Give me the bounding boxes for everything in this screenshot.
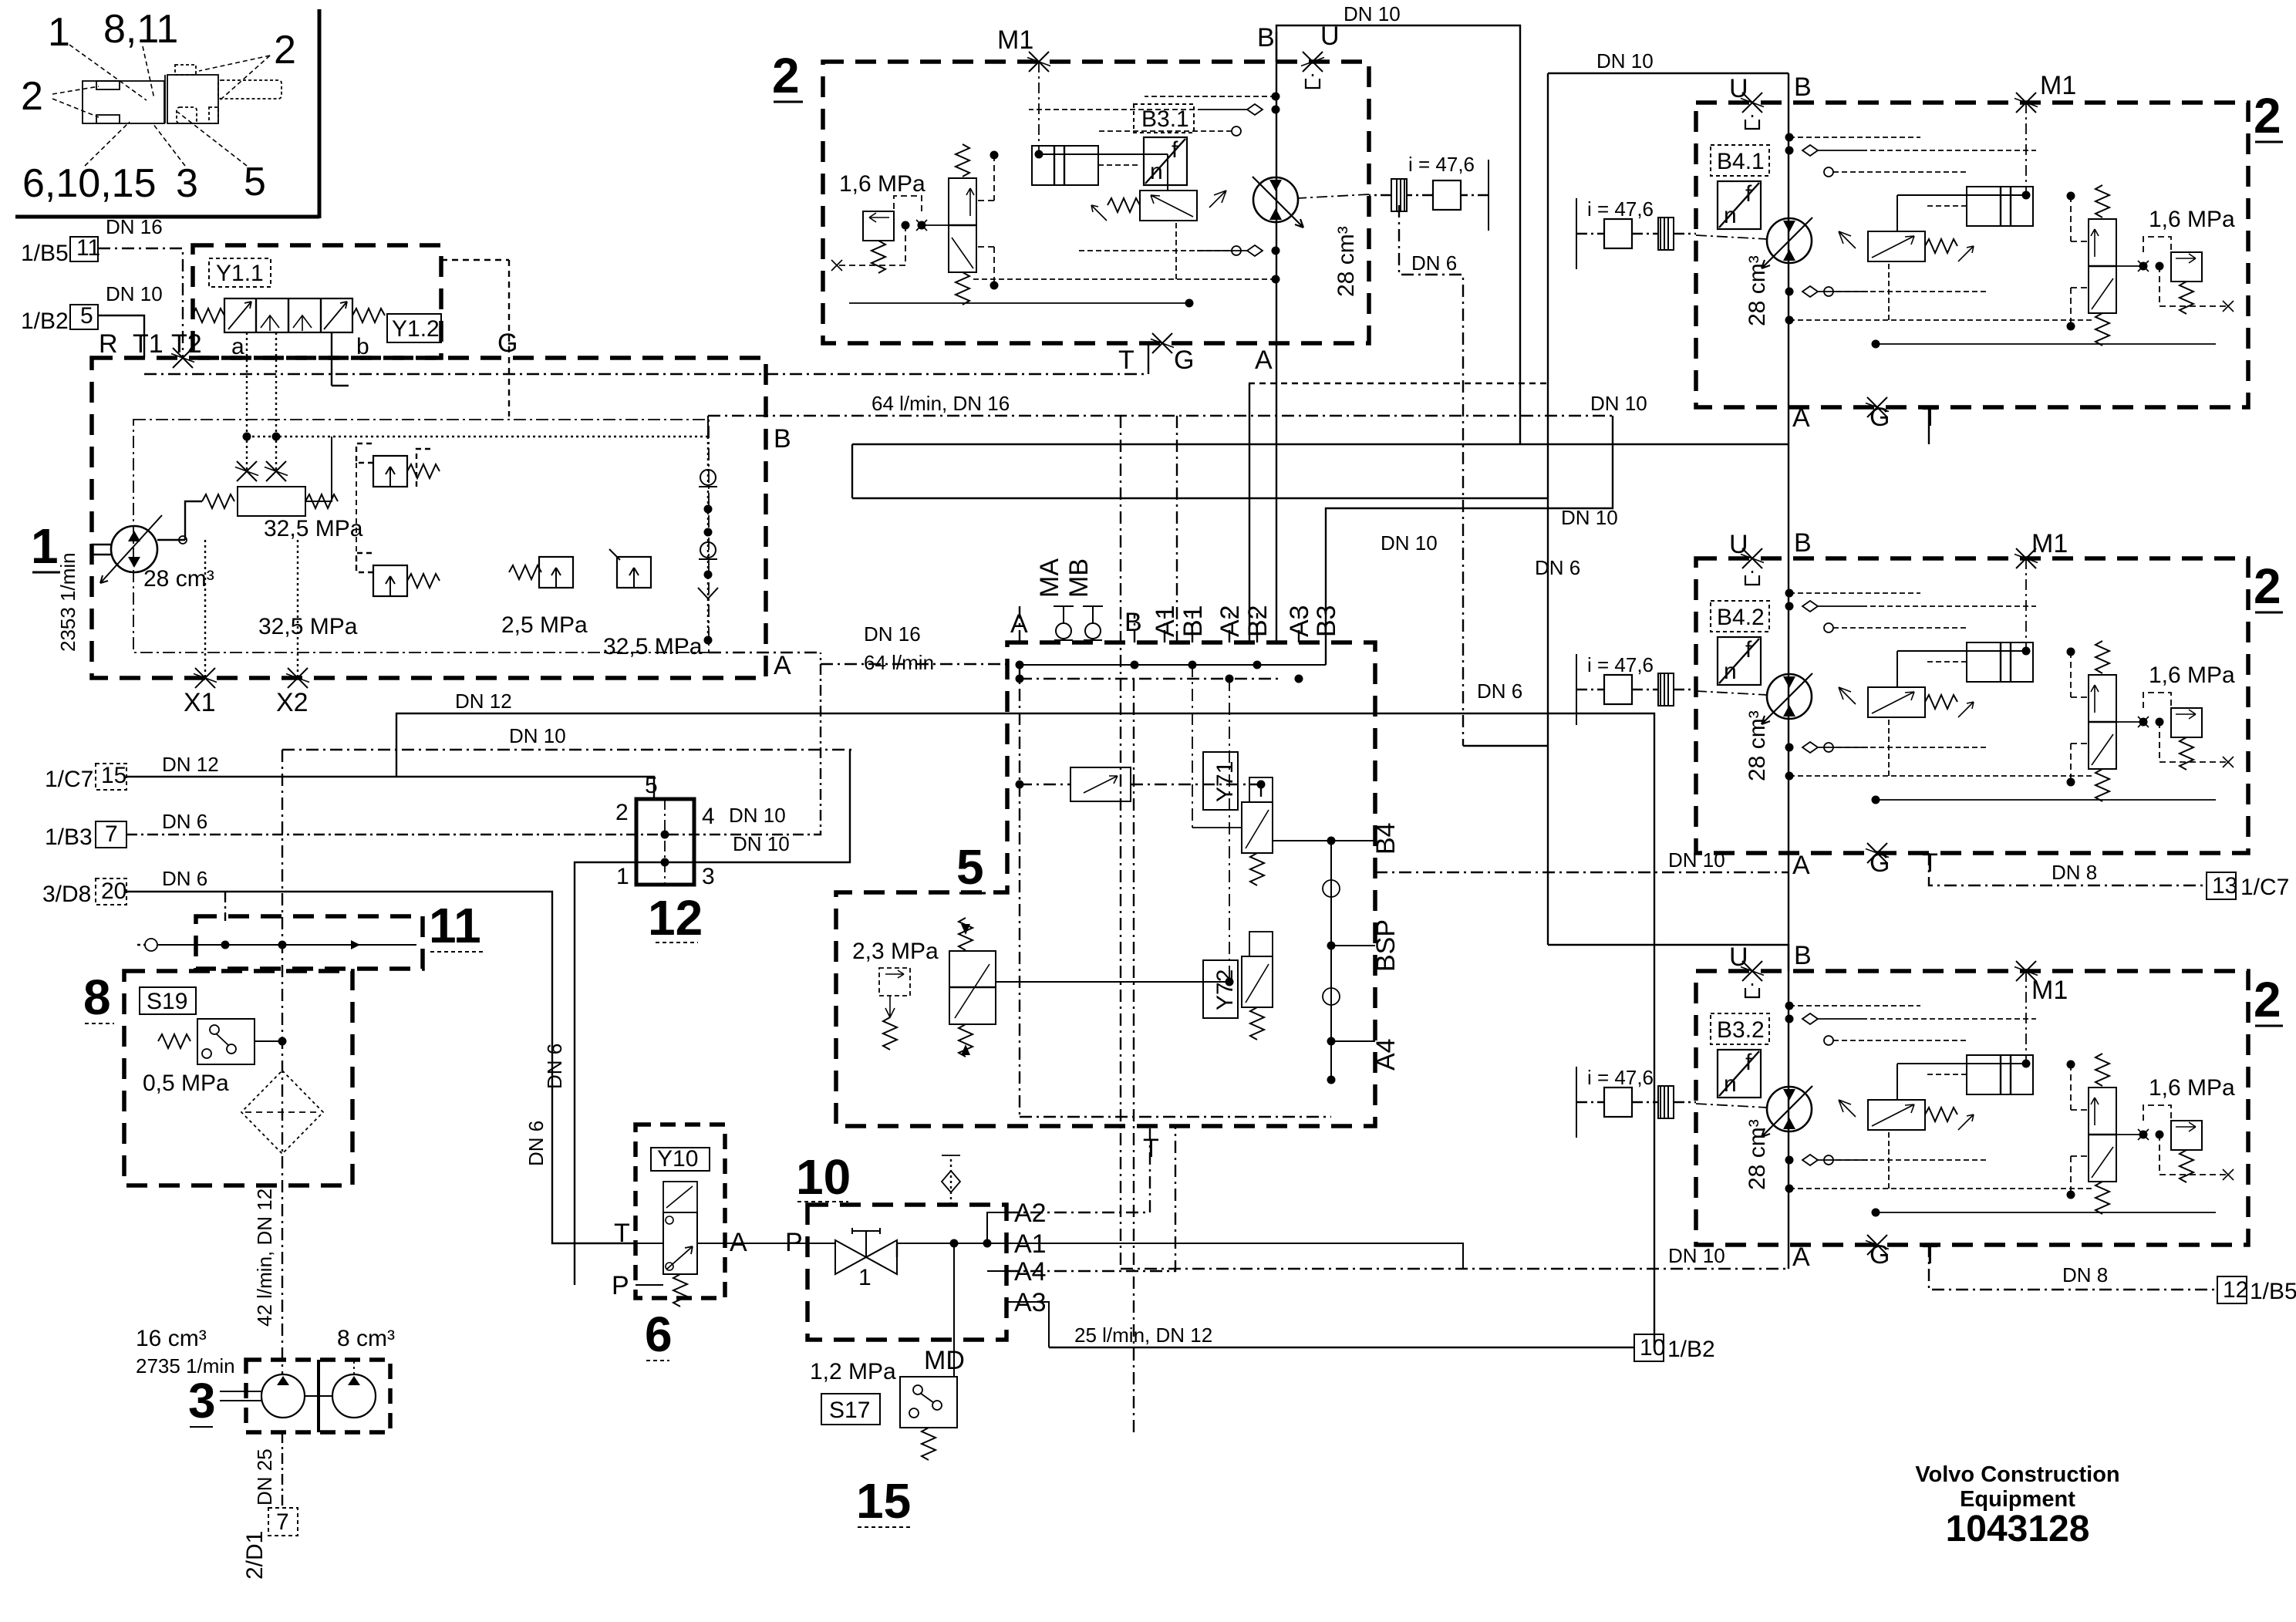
svg-text:M1: M1 bbox=[2031, 976, 2068, 1005]
A4 line inside bbox=[1020, 1116, 1331, 1118]
svg-text:X1: X1 bbox=[184, 688, 216, 717]
wire 1/C7 DN12 bbox=[126, 777, 654, 799]
svg-text:5: 5 bbox=[244, 160, 266, 204]
svg-text:28 cm³: 28 cm³ bbox=[1333, 226, 1359, 297]
svg-text:2353 1/min: 2353 1/min bbox=[56, 552, 79, 652]
svg-text:5: 5 bbox=[956, 839, 984, 895]
svg-text:64 l/min, DN 16: 64 l/min, DN 16 bbox=[872, 392, 1010, 415]
motor box B3.2 bbox=[1121, 941, 2283, 1272]
svg-text:DN 6: DN 6 bbox=[162, 810, 207, 833]
Y71 bbox=[1203, 752, 1238, 810]
svg-text:1/B5: 1/B5 bbox=[21, 241, 69, 266]
svg-text:DN 10: DN 10 bbox=[106, 282, 163, 305]
svg-text:28 cm³: 28 cm³ bbox=[143, 566, 214, 592]
svg-text:10: 10 bbox=[796, 1149, 851, 1205]
svg-text:1/B5: 1/B5 bbox=[2250, 1279, 2296, 1304]
svg-text:12: 12 bbox=[2223, 1277, 2248, 1303]
legend numbers bbox=[21, 7, 296, 206]
svg-text:DN 10: DN 10 bbox=[1590, 392, 1647, 415]
check valve above bbox=[950, 1155, 952, 1205]
svg-text:1,6 MPa: 1,6 MPa bbox=[2149, 663, 2235, 688]
right check valves BSP bbox=[1330, 841, 1332, 1080]
svg-text:1,6 MPa: 1,6 MPa bbox=[2149, 207, 2235, 232]
svg-text:DN 6: DN 6 bbox=[1411, 251, 1457, 275]
svg-text:B: B bbox=[1124, 608, 1142, 637]
svg-text:3: 3 bbox=[702, 864, 715, 889]
svg-text:T: T bbox=[1922, 848, 1938, 878]
internal link lines bbox=[247, 436, 708, 437]
svg-text:DN 10: DN 10 bbox=[1381, 531, 1438, 555]
wire B4.2 B feed bbox=[1249, 383, 1548, 384]
valve bbox=[636, 1182, 725, 1307]
svg-text:DN 10: DN 10 bbox=[1344, 2, 1401, 25]
svg-text:B: B bbox=[1257, 23, 1275, 52]
svg-text:15: 15 bbox=[101, 763, 126, 788]
svg-text:B: B bbox=[1794, 73, 1812, 102]
svg-text:U: U bbox=[1729, 530, 1748, 559]
svg-text:0,5 MPa: 0,5 MPa bbox=[143, 1071, 229, 1096]
wire 42 l/min DN 12 suction bbox=[282, 750, 283, 1374]
svg-text:B: B bbox=[774, 424, 791, 454]
svg-text:28 cm³: 28 cm³ bbox=[1745, 710, 1770, 781]
wire DN16 to T2 bbox=[98, 248, 183, 358]
svg-text:MA: MA bbox=[1035, 558, 1064, 598]
svg-text:MB: MB bbox=[1064, 558, 1094, 598]
svg-text:DN 10: DN 10 bbox=[1561, 506, 1618, 529]
svg-text:DN 10: DN 10 bbox=[729, 804, 786, 827]
svg-text:B4: B4 bbox=[1371, 822, 1401, 855]
svg-text:1: 1 bbox=[858, 1265, 872, 1290]
DN6 drain down bbox=[1399, 205, 1463, 746]
legend border bbox=[15, 9, 319, 218]
wire pump A feed 64 l/min bbox=[709, 652, 821, 653]
component 2 box bbox=[823, 62, 1369, 343]
svg-text:i = 47,6: i = 47,6 bbox=[1587, 653, 1654, 676]
wire DN 10 net B bbox=[708, 415, 1613, 416]
svg-text:5: 5 bbox=[645, 773, 658, 798]
svg-text:32,5 MPa: 32,5 MPa bbox=[264, 516, 363, 541]
pressure switch bbox=[158, 1019, 287, 1064]
svg-text:2: 2 bbox=[21, 74, 43, 119]
svg-text:Y71: Y71 bbox=[1212, 761, 1238, 802]
svg-text:T: T bbox=[1143, 1134, 1159, 1163]
svg-text:11: 11 bbox=[429, 898, 481, 953]
svg-text:DN 16: DN 16 bbox=[106, 215, 163, 238]
svg-text:T: T bbox=[1118, 346, 1135, 375]
svg-text:a: a bbox=[231, 334, 244, 359]
throttle bbox=[1070, 767, 1131, 801]
machine top view bbox=[83, 65, 282, 123]
svg-text:G: G bbox=[1174, 346, 1194, 375]
svg-text:DN 10: DN 10 bbox=[733, 832, 790, 855]
svg-text:1,6 MPa: 1,6 MPa bbox=[839, 171, 925, 197]
pump regulator valve bbox=[157, 433, 338, 545]
svg-text:11: 11 bbox=[76, 235, 100, 261]
relief 32,5 MPa #3 bbox=[617, 557, 651, 588]
motor box B4.1 bbox=[1576, 71, 2283, 444]
svg-text:DN 6: DN 6 bbox=[543, 1044, 566, 1089]
wire 3/D8 DN6 to comp6 T bbox=[126, 892, 636, 1243]
B3.1 label bbox=[1134, 104, 1194, 133]
svg-text:DN 10: DN 10 bbox=[509, 724, 566, 747]
svg-text:A: A bbox=[774, 651, 791, 680]
f/n sensor box bbox=[1144, 137, 1187, 185]
svg-text:T: T bbox=[614, 1219, 630, 1248]
svg-text:1043128: 1043128 bbox=[1946, 1509, 2090, 1549]
wire B1 riser bbox=[1176, 416, 1178, 642]
svg-text:16 cm³: 16 cm³ bbox=[136, 1326, 207, 1351]
motor box B4.2 bbox=[1375, 528, 2283, 880]
svg-text:1/B2: 1/B2 bbox=[21, 309, 69, 334]
B-A through line bbox=[1276, 32, 1277, 343]
label Y1.2 bbox=[387, 314, 441, 342]
svg-text:1/B2: 1/B2 bbox=[1667, 1337, 1715, 1362]
wire T1-T link bbox=[144, 373, 1148, 375]
svg-text:DN 12: DN 12 bbox=[162, 753, 219, 776]
svg-text:b: b bbox=[356, 334, 369, 359]
svg-text:DN 12: DN 12 bbox=[455, 690, 512, 713]
svg-text:20: 20 bbox=[101, 878, 126, 904]
solenoid valve Y1 bbox=[192, 298, 385, 332]
svg-text:G: G bbox=[497, 329, 518, 358]
svg-text:25 l/min, DN 12: 25 l/min, DN 12 bbox=[1074, 1324, 1212, 1347]
svg-text:Y1.1: Y1.1 bbox=[216, 261, 264, 286]
svg-text:M1: M1 bbox=[2031, 529, 2068, 558]
svg-text:M1: M1 bbox=[997, 25, 1033, 55]
svg-text:R: R bbox=[99, 329, 118, 359]
callout leader lines bbox=[52, 45, 270, 166]
svg-text:2: 2 bbox=[2254, 972, 2281, 1027]
svg-text:BSP: BSP bbox=[1371, 919, 1401, 972]
pump P1 bbox=[92, 515, 162, 583]
svg-text:B: B bbox=[1794, 528, 1812, 558]
wire DN 6 drain to B3.2 bbox=[1463, 745, 1548, 747]
svg-text:DN 10: DN 10 bbox=[1668, 1244, 1725, 1267]
wire 3/D8 branch to comp11 bbox=[224, 892, 226, 921]
svg-text:32,5 MPa: 32,5 MPa bbox=[258, 614, 358, 639]
svg-text:8: 8 bbox=[83, 969, 111, 1025]
wire DN 10 via joint 12 bbox=[575, 750, 850, 1285]
svg-text:A4: A4 bbox=[1371, 1038, 1401, 1071]
wire 25 l/min DN 12 bbox=[1049, 1347, 1634, 1348]
svg-text:B4.2: B4.2 bbox=[1717, 605, 1765, 630]
svg-text:B: B bbox=[1794, 941, 1812, 970]
svg-text:7: 7 bbox=[105, 821, 118, 847]
svg-text:U: U bbox=[1729, 74, 1748, 103]
ports X1 X2 bbox=[194, 668, 217, 688]
svg-text:DN 10: DN 10 bbox=[1668, 848, 1725, 872]
svg-text:6: 6 bbox=[645, 1307, 673, 1362]
connector 1/B2 5 bbox=[70, 305, 98, 329]
svg-text:2,5 MPa: 2,5 MPa bbox=[501, 612, 588, 638]
Y72 bbox=[1203, 960, 1238, 1018]
A vertical inside bbox=[1019, 665, 1020, 1117]
T port bottom bbox=[1133, 679, 1135, 1435]
svg-text:M1: M1 bbox=[2040, 71, 2076, 100]
svg-text:15: 15 bbox=[856, 1473, 911, 1529]
svg-text:8,11: 8,11 bbox=[103, 7, 178, 52]
svg-text:1/B3: 1/B3 bbox=[45, 824, 93, 850]
svg-text:42 l/min, DN 12: 42 l/min, DN 12 bbox=[253, 1189, 276, 1327]
pilot lines from valve into comp1 bbox=[246, 332, 248, 471]
motor assembly internals (mirrored) bbox=[829, 52, 1369, 308]
relief 2,5 MPa bbox=[539, 557, 573, 588]
svg-text:12: 12 bbox=[648, 890, 703, 946]
svg-text:1/C7: 1/C7 bbox=[2240, 875, 2289, 900]
svg-text:2,3 MPa: 2,3 MPa bbox=[852, 939, 939, 964]
A-port wires bbox=[987, 1212, 1006, 1243]
svg-text:Volvo Construction: Volvo Construction bbox=[1915, 1462, 2119, 1487]
svg-text:10: 10 bbox=[1640, 1335, 1665, 1361]
svg-text:2: 2 bbox=[274, 28, 296, 73]
wire A-port line to B4.1 bbox=[852, 443, 1789, 445]
wire DN 12 distribution bbox=[396, 713, 1654, 1347]
svg-text:Y1.2: Y1.2 bbox=[392, 316, 440, 342]
svg-text:MD: MD bbox=[924, 1346, 965, 1375]
svg-text:B3.1: B3.1 bbox=[1141, 106, 1189, 132]
svg-text:A: A bbox=[1792, 851, 1810, 880]
shaft to right bbox=[1369, 160, 1489, 231]
svg-text:DN 6: DN 6 bbox=[1477, 679, 1522, 703]
svg-text:DN 6: DN 6 bbox=[1535, 556, 1580, 579]
inner control box bbox=[133, 420, 709, 653]
wire M1 line vertical bbox=[1120, 416, 1121, 1269]
DN10 line from B up over bbox=[1276, 25, 1520, 444]
svg-text:7: 7 bbox=[276, 1509, 289, 1535]
block 5 outline bbox=[836, 642, 1375, 1126]
svg-text:A: A bbox=[1255, 346, 1273, 375]
wire A1 riser bbox=[1249, 383, 1250, 642]
svg-text:5: 5 bbox=[80, 303, 93, 329]
svg-text:U: U bbox=[1729, 943, 1748, 972]
svg-text:1,2 MPa: 1,2 MPa bbox=[810, 1359, 896, 1384]
svg-text:8 cm³: 8 cm³ bbox=[337, 1326, 395, 1351]
svg-text:DN 25: DN 25 bbox=[253, 1448, 276, 1506]
svg-text:13: 13 bbox=[2212, 873, 2237, 899]
relief valve 32.5 #2 bbox=[373, 565, 407, 596]
wire 1/B3 DN6 bbox=[126, 653, 821, 835]
svg-text:4: 4 bbox=[702, 804, 715, 829]
svg-text:i = 47,6: i = 47,6 bbox=[1587, 1066, 1654, 1089]
svg-text:S17: S17 bbox=[829, 1398, 870, 1423]
svg-text:A: A bbox=[1792, 403, 1810, 433]
svg-text:2: 2 bbox=[2254, 88, 2281, 143]
svg-text:2: 2 bbox=[772, 48, 800, 103]
svg-text:1: 1 bbox=[48, 10, 70, 55]
component 1 pilot sub-box bbox=[193, 245, 441, 358]
wire DN10 to T1 bbox=[98, 315, 144, 358]
svg-text:DN 8: DN 8 bbox=[2052, 861, 2097, 884]
svg-text:3: 3 bbox=[188, 1373, 216, 1428]
svg-text:T1: T1 bbox=[133, 329, 164, 359]
svg-text:2/D1: 2/D1 bbox=[242, 1531, 268, 1580]
shut-off valve bbox=[835, 1228, 897, 1290]
svg-text:X2: X2 bbox=[276, 688, 308, 717]
svg-text:DN 6: DN 6 bbox=[162, 867, 207, 890]
component 1 outer box bbox=[92, 358, 766, 678]
check valves column bbox=[699, 470, 717, 487]
svg-text:i = 47,6: i = 47,6 bbox=[1408, 153, 1475, 176]
relief valve 32.5 #1 bbox=[373, 456, 407, 487]
svg-text:1,6 MPa: 1,6 MPa bbox=[2149, 1075, 2235, 1101]
DN25 down bbox=[282, 1432, 283, 1508]
svg-text:64 l/min: 64 l/min bbox=[864, 651, 934, 674]
G pilot line bbox=[508, 260, 510, 416]
svg-text:2: 2 bbox=[615, 800, 629, 825]
svg-text:1: 1 bbox=[31, 518, 59, 574]
junction rows inside bbox=[1020, 664, 1326, 666]
svg-text:P: P bbox=[612, 1271, 629, 1300]
svg-text:2: 2 bbox=[2254, 558, 2281, 614]
svg-text:28 cm³: 28 cm³ bbox=[1745, 1119, 1770, 1190]
connector 1/C7 15 bbox=[96, 764, 126, 790]
svg-text:6,10,15: 6,10,15 bbox=[22, 161, 157, 206]
svg-text:2735 1/min: 2735 1/min bbox=[136, 1354, 235, 1378]
svg-text:32,5 MPa: 32,5 MPa bbox=[603, 634, 703, 659]
port stubs above edge bbox=[1020, 606, 1299, 642]
svg-text:B3.2: B3.2 bbox=[1717, 1017, 1765, 1043]
svg-text:Y10: Y10 bbox=[657, 1146, 698, 1172]
svg-text:S19: S19 bbox=[147, 989, 187, 1014]
svg-text:DN 16: DN 16 bbox=[864, 622, 921, 646]
svg-text:A: A bbox=[1792, 1243, 1810, 1272]
svg-text:1/C7: 1/C7 bbox=[45, 767, 93, 792]
label Y1.1 bbox=[209, 258, 271, 287]
svg-text:3: 3 bbox=[176, 161, 198, 206]
connector 1/B3 7 bbox=[96, 821, 126, 848]
svg-text:B4.1: B4.1 bbox=[1717, 149, 1765, 174]
connector 3/D8 20 bbox=[96, 878, 126, 905]
svg-text:3/D8: 3/D8 bbox=[42, 882, 91, 907]
svg-text:B3: B3 bbox=[1312, 605, 1341, 637]
svg-text:T: T bbox=[1922, 1240, 1938, 1270]
wire B3 riser DN 10 bbox=[1326, 416, 1613, 665]
svg-text:1: 1 bbox=[616, 864, 629, 889]
svg-text:DN 8: DN 8 bbox=[2062, 1263, 2108, 1286]
MA MB check valves bbox=[1054, 623, 1073, 640]
svg-text:DN 10: DN 10 bbox=[1596, 49, 1654, 73]
svg-text:28 cm³: 28 cm³ bbox=[1745, 255, 1770, 326]
svg-text:T: T bbox=[1922, 403, 1938, 432]
filter diamond bbox=[241, 1071, 323, 1154]
svg-text:i = 47,6: i = 47,6 bbox=[1587, 197, 1654, 221]
wire parallel feed bbox=[852, 497, 1548, 499]
connector 1/B5 11 bbox=[70, 237, 98, 261]
svg-text:DN 6: DN 6 bbox=[524, 1121, 548, 1166]
svg-text:Y72: Y72 bbox=[1212, 969, 1238, 1010]
